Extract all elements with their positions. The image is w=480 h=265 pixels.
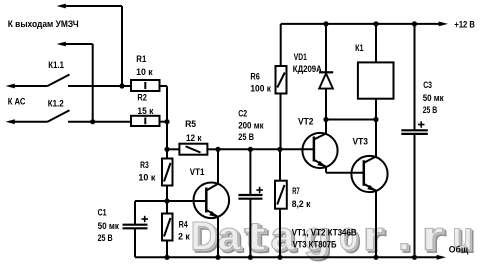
plus sign C1 bbox=[142, 216, 149, 222]
svg-text:R1: R1 bbox=[136, 54, 147, 65]
svg-text:VT3 КТ807Б: VT3 КТ807Б bbox=[293, 240, 337, 251]
arrow to amplifier output 1 bbox=[57, 4, 66, 9]
arrow +12V bbox=[439, 22, 448, 27]
resistor R1 bbox=[131, 80, 167, 91]
arrow to amplifier output 2 bbox=[57, 42, 66, 47]
plus sign C2 bbox=[256, 187, 263, 193]
node +12V rail bbox=[281, 23, 442, 25]
svg-text:R2: R2 bbox=[137, 93, 147, 104]
wire relay to collectors bbox=[326, 119, 376, 121]
svg-text:К выходам УМЗЧ: К выходам УМЗЧ bbox=[8, 19, 79, 30]
resistor R5 bbox=[167, 144, 218, 155]
svg-text:10 к: 10 к bbox=[138, 173, 155, 184]
relay contact K1.1 bbox=[12, 75, 131, 87]
svg-text:R7: R7 bbox=[292, 186, 300, 197]
svg-text:8,2 к: 8,2 к bbox=[292, 199, 311, 210]
transistor VT2 bbox=[302, 120, 363, 173]
svg-text:+12 В: +12 В bbox=[454, 20, 475, 31]
svg-text:25 В: 25 В bbox=[423, 105, 438, 116]
svg-text:VT1, VT2 КТ346В: VT1, VT2 КТ346В bbox=[292, 228, 357, 239]
svg-text:VD1: VD1 bbox=[294, 52, 308, 63]
wire to amplifier output 1 bbox=[63, 6, 122, 86]
svg-text:VT3: VT3 bbox=[353, 137, 369, 148]
svg-text:К1.1: К1.1 bbox=[48, 60, 64, 71]
relay coil K1 bbox=[358, 24, 394, 120]
emitter arrow VT3 bbox=[367, 185, 376, 191]
diode VD1 bbox=[319, 24, 333, 120]
svg-text:КД209А: КД209А bbox=[293, 64, 322, 75]
capacitor C2 bbox=[238, 149, 262, 257]
emitter arrow VT2 bbox=[317, 161, 326, 167]
wire R1/R2 output vertical bbox=[166, 86, 168, 159]
relay contact K1.2 bbox=[12, 110, 131, 122]
transistor VT1 bbox=[167, 149, 229, 257]
svg-text:С2: С2 bbox=[238, 108, 247, 119]
svg-text:2 к: 2 к bbox=[178, 231, 190, 242]
svg-text:R4: R4 bbox=[179, 220, 189, 231]
svg-text:15 к: 15 к bbox=[137, 106, 153, 117]
svg-text:С1: С1 bbox=[98, 208, 108, 219]
svg-text:VT2: VT2 bbox=[298, 117, 314, 128]
capacitor C1 bbox=[123, 201, 168, 257]
svg-text:50 мк: 50 мк bbox=[423, 93, 444, 104]
capacitor C3 bbox=[401, 24, 428, 257]
svg-text:К1.2: К1.2 bbox=[48, 98, 64, 109]
resistor R3 bbox=[162, 159, 173, 202]
svg-text:С3: С3 bbox=[423, 80, 432, 91]
resistor R7 bbox=[275, 149, 287, 257]
plus sign C3 bbox=[418, 121, 425, 127]
resistor R4 bbox=[162, 201, 173, 257]
arrow to speaker 1 bbox=[6, 84, 15, 89]
svg-text:25 В: 25 В bbox=[98, 233, 113, 244]
resistor R2 bbox=[131, 116, 167, 126]
svg-text:100 к: 100 к bbox=[250, 83, 271, 94]
arrow common bbox=[437, 255, 446, 260]
svg-text:R5: R5 bbox=[185, 119, 197, 130]
resistor R6 bbox=[276, 24, 287, 149]
svg-text:R3: R3 bbox=[140, 160, 149, 171]
svg-text:VT1: VT1 bbox=[190, 167, 205, 178]
wire base bus bbox=[218, 148, 314, 150]
transistor VT3 bbox=[351, 120, 387, 258]
arrow to speaker 2 bbox=[6, 119, 15, 124]
svg-text:10 к: 10 к bbox=[136, 67, 153, 78]
wire to amplifier output 2 bbox=[63, 44, 93, 122]
svg-text:200 мк: 200 мк bbox=[238, 120, 264, 131]
svg-text:50 мк: 50 мк bbox=[98, 221, 119, 232]
svg-text:К АС: К АС bbox=[8, 97, 26, 108]
emitter arrow VT1 bbox=[209, 211, 218, 217]
common rail Общ bbox=[135, 256, 440, 258]
svg-text:25 В: 25 В bbox=[238, 132, 254, 143]
svg-text:Общ: Общ bbox=[449, 244, 469, 255]
svg-text:К1: К1 bbox=[355, 43, 364, 54]
svg-text:R6: R6 bbox=[250, 72, 260, 83]
svg-text:12 к: 12 к bbox=[186, 133, 202, 144]
